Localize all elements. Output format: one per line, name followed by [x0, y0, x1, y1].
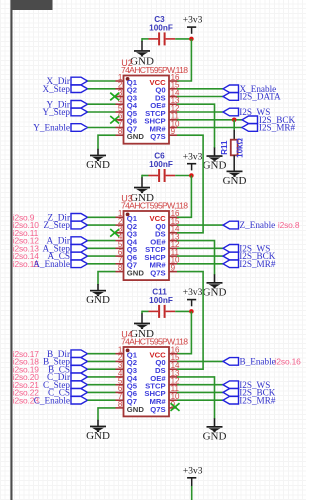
svg-text:GND: GND [203, 430, 227, 442]
svg-text:9: 9 [171, 127, 176, 136]
svg-text:GND: GND [86, 159, 110, 171]
wire C_Enable to U4 pin 7 [88, 399, 116, 401]
svg-text:100nF: 100nF [149, 296, 173, 305]
wire B_CS to U4 pin 3 [88, 368, 116, 370]
tag A_CS [71, 252, 88, 260]
no-connect X on U4 Q7S pin 9 [171, 403, 180, 411]
wire B_Dir to U4 pin 1 [88, 353, 116, 355]
tag A_Enable [71, 260, 88, 268]
tag A_Dir [71, 237, 88, 245]
tag A_Step [71, 245, 88, 253]
wire B_Step to U4 pin 2 [88, 360, 116, 362]
svg-text:GND: GND [127, 405, 145, 414]
svg-text:8: 8 [118, 127, 123, 136]
ground at U4 OE# [203, 426, 227, 442]
wire +3v3 node down to U2 VCC pin 16 [177, 39, 191, 81]
tag Y_Enable [71, 124, 88, 132]
wire C_CS to U4 pin 6 [88, 391, 116, 393]
capacitor C6 [149, 152, 176, 183]
IC U4 74AHCT595PW,118 [116, 330, 189, 417]
svg-text:100nF: 100nF [149, 160, 173, 169]
svg-text:Z_Enable: Z_Enable [240, 220, 276, 230]
wire U2 OE# pin 13 to ground [177, 104, 215, 148]
wire Y_Step to U2 pin 5 [88, 111, 116, 113]
svg-text:Y_Step: Y_Step [42, 107, 70, 117]
wire A_Step to U3 pin 5 [88, 247, 116, 249]
tag Y_Dir [71, 101, 88, 109]
resistor R11 10k&#937; [220, 138, 245, 158]
wire down to ground below C6 [141, 175, 143, 178]
wire U2 MR# to I2S_MR# [177, 127, 242, 129]
wire U3 STCP to I2S_WS [177, 247, 223, 249]
ground at U2 OE# [203, 155, 227, 171]
wire C6 left lead to ground [142, 175, 149, 177]
wire U2 pin 8 to ground [98, 135, 116, 149]
svg-text:GND: GND [203, 160, 227, 172]
wire C3 right lead to +3v3 node [175, 38, 191, 40]
svg-text:B_Enable: B_Enable [240, 357, 276, 367]
ground GND at C11 [130, 323, 154, 340]
tag I2S_MR# [223, 396, 239, 404]
tag I2S_DATA [223, 93, 239, 101]
wire Y_Dir to U2 pin 4 [88, 103, 116, 105]
tag X_Dir [71, 77, 88, 85]
tag C_Enable [71, 396, 88, 404]
wire C6 right lead to +3v3 node [175, 175, 191, 177]
wire A_CS to U3 pin 6 [88, 255, 116, 257]
wire C11 left lead to ground [142, 310, 149, 312]
tag B_Step [71, 358, 88, 366]
svg-text:100nF: 100nF [149, 23, 173, 32]
wire U3 Q7S daisy-chain to U4 DS [177, 272, 203, 370]
wire U4 OE# pin 13 to ground [177, 377, 215, 419]
sheet frame border line [10, 0, 12, 500]
wire +3v3 node down to U4 VCC pin 16 [177, 311, 191, 353]
capacitor C3 [149, 15, 176, 46]
ground at R11 [223, 171, 247, 187]
wire Z_Dir to U3 pin 1 [88, 216, 116, 218]
svg-text:9: 9 [171, 263, 176, 272]
tag I2S_WS [223, 108, 239, 116]
wire Z_Step to U3 pin 2 [88, 224, 116, 226]
svg-text:GND: GND [223, 175, 247, 187]
svg-text:I2S_MR#: I2S_MR# [259, 123, 296, 133]
svg-text:Z_Step: Z_Step [43, 220, 70, 230]
svg-text:Q7S: Q7S [150, 132, 165, 141]
svg-text:GND: GND [127, 268, 145, 277]
wire U3 Q0 to Z_Enable [177, 224, 223, 226]
junction node +3v3/C6 [189, 173, 194, 178]
wire U2 DS to I2S_DATA [177, 96, 223, 98]
svg-text:+3v3: +3v3 [183, 288, 203, 298]
tag Z_Dir [71, 214, 88, 222]
tag Y_Step [71, 108, 88, 116]
svg-text:A_Enable: A_Enable [33, 259, 70, 269]
wire U3 MR# to I2S_MR# [177, 263, 223, 265]
tag I2S_BCK [242, 116, 258, 124]
wire U4 SHCP to I2S_BCK [177, 391, 223, 393]
wire resistor R11 to ground [233, 155, 235, 171]
tag X_Enable [223, 85, 239, 93]
svg-text:GND: GND [86, 294, 110, 306]
svg-text:X_Step: X_Step [42, 84, 70, 94]
svg-text:10kΩ: 10kΩ [236, 138, 245, 158]
svg-text:8: 8 [118, 400, 123, 409]
svg-text:+3v3: +3v3 [183, 152, 203, 162]
tag Z_Step [71, 221, 88, 229]
tag C_CS [71, 389, 88, 397]
title block corner rectangle [11, 0, 53, 10]
svg-text:Y_Enable: Y_Enable [33, 123, 70, 133]
ground at U3 pin 8 [86, 290, 110, 306]
wire C11 right lead to +3v3 node [175, 310, 191, 312]
ground GND at C6 [130, 187, 154, 204]
svg-text:R11: R11 [220, 140, 229, 155]
capacitor C11 [149, 287, 176, 318]
svg-text:+3v3: +3v3 [183, 466, 203, 476]
junction node +3v3/C3 [189, 37, 194, 42]
wire from bottom +3v3 [191, 485, 193, 487]
tag B_Enable [223, 358, 239, 366]
wire U3 pin 8 to ground [98, 272, 116, 285]
tag Z_Enable [223, 221, 239, 229]
ground at U4 pin 8 [86, 426, 110, 442]
wire +3v3 node down to U3 VCC pin 16 [177, 176, 191, 218]
svg-text:GND: GND [127, 132, 145, 141]
ground at U3 OE# [203, 282, 227, 298]
svg-text:I2S_MR#: I2S_MR# [239, 259, 276, 269]
+3v3 power symbol bottom [183, 466, 203, 484]
svg-text:C_Enable: C_Enable [34, 395, 70, 405]
wire U2 STCP to I2S_WS [177, 111, 223, 113]
no-connect X on U2 pin 3 [110, 93, 119, 101]
tag I2S_MR# [223, 260, 239, 268]
wire U3 OE# pin 13 to ground [177, 241, 215, 275]
svg-text:Q7S: Q7S [150, 405, 165, 414]
tag I2S_BCK [223, 252, 239, 260]
wire Y_Enable to U2 pin 7 [88, 127, 116, 129]
tag C_Step [71, 381, 88, 389]
svg-text:Q7S: Q7S [150, 268, 165, 277]
wire U3 SHCP to I2S_BCK [177, 255, 223, 257]
tag I2S_BCK [223, 389, 239, 397]
wire X_Step to U2 pin 2 [88, 88, 116, 90]
wire U2 Q7S daisy-chain to U3 DS [177, 135, 203, 233]
tag I2S_WS [223, 245, 239, 253]
ground at U2 pin 8 [86, 155, 110, 171]
wire U4 STCP to I2S_WS [177, 384, 223, 386]
svg-text:GND: GND [86, 430, 110, 442]
junction node +3v3/C11 [189, 309, 194, 314]
wire A_Dir to U3 pin 4 [88, 240, 116, 242]
svg-text:I2S_DATA: I2S_DATA [240, 92, 281, 102]
svg-text:i2so.8: i2so.8 [278, 220, 300, 230]
wire U2 SHCP to I2S_BCK [177, 119, 242, 121]
wire A_Enable to U3 pin 7 [88, 263, 116, 265]
wire down to ground below C11 [141, 311, 143, 314]
wire U4 Q0 to B_Enable [177, 360, 223, 362]
tag X_Step [71, 85, 88, 93]
IC U2 74AHCT595PW,118 [116, 58, 189, 144]
wire C_Dir to U4 pin 4 [88, 376, 116, 378]
wire C_Step to U4 pin 5 [88, 384, 116, 386]
wire U4 MR# to I2S_MR# [177, 399, 223, 401]
+3v3 power symbol above C11 [183, 288, 203, 306]
no-connect X on U2 pin 6 [110, 116, 119, 124]
tag I2S_WS [223, 381, 239, 389]
svg-text:8: 8 [118, 263, 123, 272]
tag B_Dir [71, 350, 88, 358]
IC U3 74AHCT595PW,118 [116, 194, 189, 280]
+3v3 power symbol above C3 [183, 16, 203, 34]
ground GND at C3 [130, 50, 154, 67]
wire U2 Q0 to X_Enable [177, 88, 223, 90]
tag I2S_MR# [242, 124, 258, 132]
svg-text:i2so.16: i2so.16 [275, 357, 301, 367]
svg-text:I2S_MR#: I2S_MR# [239, 395, 276, 405]
svg-text:+3v3: +3v3 [183, 16, 203, 26]
tag C_Dir [71, 373, 88, 381]
tag B_CS [71, 365, 88, 373]
wire C3 left lead to ground [142, 38, 149, 40]
junction I2S_BCK / R11 [232, 118, 237, 123]
wire U4 pin 8 to ground [98, 408, 116, 420]
wire X_Dir to U2 pin 1 [88, 80, 116, 82]
wire down to ground below C3 [141, 38, 143, 41]
+3v3 power symbol above C6 [183, 152, 203, 170]
no-connect X on U3 pin 3 [110, 229, 119, 237]
wire junction down to resistor R11 [233, 120, 235, 130]
svg-text:GND: GND [203, 286, 227, 298]
